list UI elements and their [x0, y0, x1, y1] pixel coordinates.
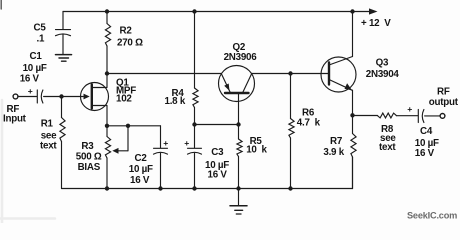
svg-text:R1: R1 [41, 118, 54, 129]
svg-text:2N3904: 2N3904 [366, 69, 400, 80]
scan artifact top-left tick [0, 0, 2, 9]
transistor Q1 MPF102 JFET [81, 74, 109, 126]
scan artifact bottom-left [0, 217, 55, 220]
svg-text:10 µF: 10 µF [23, 63, 47, 74]
svg-text:2N3906: 2N3906 [224, 52, 258, 63]
svg-text:C3: C3 [211, 147, 224, 158]
junction collector node / R6 [288, 71, 292, 75]
label R8 see text [379, 124, 396, 153]
label Q3 2N3904 [366, 57, 400, 80]
transistor Q2 2N3906 [219, 66, 255, 125]
resistor R1 [60, 97, 65, 189]
junction R4 / C3 [192, 122, 196, 126]
scan artifact left edge [1, 100, 4, 223]
svg-text:output: output [429, 97, 459, 108]
svg-text:R2: R2 [120, 26, 133, 37]
wire R8 to C4 [396, 115, 417, 117]
wire Q2 base node [195, 124, 239, 126]
label R6 4.7 k [297, 107, 321, 128]
svg-text:BIAS: BIAS [78, 162, 101, 173]
label C5 value .1 [34, 23, 47, 45]
junction Q3 emitter / R7 / R8 [350, 113, 354, 117]
label R2 270 ohm [117, 26, 143, 49]
resistor R8 [377, 113, 396, 118]
junction source / R3 [105, 124, 109, 128]
junction rail / C3 [192, 186, 196, 190]
junction top rail / R4 [192, 9, 196, 13]
wire C1 to gate junction [44, 96, 62, 98]
wire C4 to output terminal [425, 115, 440, 117]
svg-text:C4: C4 [420, 126, 433, 137]
wire gate junction to Q1 gate [62, 96, 84, 98]
ground at C5 [56, 55, 72, 62]
label C4 10uF 16V [415, 126, 439, 159]
transistor Q3 2N3904 [321, 12, 356, 116]
svg-text:4.7 k: 4.7 k [297, 117, 321, 128]
svg-text:1.8 k: 1.8 k [165, 96, 186, 107]
svg-text:16 V: 16 V [415, 148, 435, 159]
svg-text:16 V: 16 V [208, 169, 228, 180]
wire input to C1 [18, 96, 37, 98]
resistor R3 potentiometer [105, 126, 110, 189]
resistor R7 [351, 115, 356, 188]
junction gate node / R1 [59, 94, 63, 98]
wire ground bottom rail [62, 157, 353, 189]
label Q1 MPF 102 [116, 78, 136, 105]
svg-text:102: 102 [116, 94, 132, 105]
label RF Input [3, 104, 27, 124]
svg-text:SeekIC.com: SeekIC.com [407, 211, 457, 221]
svg-text:RF: RF [437, 87, 450, 98]
junction rail / R5 / ground [236, 186, 240, 190]
resistor R5 [237, 125, 242, 189]
capacitor C1 [28, 86, 43, 103]
junction top rail / Q3 collector [350, 9, 354, 13]
junction base / R5 [236, 122, 240, 126]
svg-text:text: text [379, 142, 396, 153]
svg-text:+ 12 V: + 12 V [361, 18, 391, 29]
svg-text:10 k: 10 k [246, 144, 267, 155]
RF output terminal [440, 114, 445, 119]
wire +12V top rail [63, 11, 353, 13]
junction source / R3 wiper [126, 124, 130, 128]
resistor R6 [289, 74, 294, 189]
label R5 10 k [246, 136, 267, 155]
label C2 10uF 16V [129, 153, 153, 186]
svg-text:.1: .1 [37, 34, 45, 45]
label R4 1.8 k [165, 88, 186, 107]
resistor R2 [105, 12, 110, 74]
label Q2 2N3906 [224, 42, 258, 63]
junction rail / R3 [105, 186, 109, 190]
svg-text:C1: C1 [30, 51, 43, 62]
capacitor C4 [407, 104, 424, 122]
junction rail / C2 [158, 186, 162, 190]
svg-text:+: + [28, 86, 33, 96]
svg-text:Q3: Q3 [376, 57, 389, 68]
wire emitter to R8 [353, 115, 378, 117]
svg-text:+: + [407, 104, 412, 114]
svg-text:3.9 k: 3.9 k [323, 147, 344, 158]
label R7 3.9 k [323, 136, 344, 158]
label R3 500 ohm BIAS [76, 141, 102, 173]
svg-text:500 Ω: 500 Ω [76, 152, 102, 163]
capacitor C5 [56, 12, 71, 55]
svg-text:+: + [184, 138, 189, 148]
label C3 10uF 16V [205, 147, 229, 181]
svg-text:C5: C5 [34, 23, 47, 34]
R3 wiper arrow [112, 126, 128, 154]
junction rail / R6 [288, 186, 292, 190]
wire Q1 source node [107, 125, 161, 127]
svg-text:10 µF: 10 µF [129, 164, 153, 175]
label R1 see text [40, 118, 57, 151]
capacitor C3 [184, 125, 201, 189]
ground main symbol [230, 189, 247, 215]
svg-text:270 Ω: 270 Ω [117, 38, 143, 49]
label RF output [429, 87, 459, 109]
wire Q2 collector to Q3 base [252, 73, 330, 75]
svg-text:+: + [163, 138, 168, 148]
junction Q1 drain / R2 [105, 71, 109, 75]
svg-text:R7: R7 [330, 136, 343, 147]
junction top rail / R2 [105, 9, 109, 13]
label C1 10uF 16V [20, 51, 47, 84]
wire Q1 drain node to Q2 emitter [107, 73, 222, 75]
svg-text:Input: Input [3, 113, 27, 124]
svg-text:C2: C2 [135, 153, 148, 164]
capacitor C2 [154, 126, 169, 189]
svg-text:16 V: 16 V [130, 175, 150, 186]
RF input terminal [13, 94, 18, 99]
svg-text:16 V: 16 V [20, 73, 40, 84]
svg-text:R3: R3 [81, 141, 94, 152]
svg-text:text: text [40, 140, 57, 151]
+12 V supply arrow [353, 8, 392, 29]
resistor R4 [193, 12, 198, 125]
